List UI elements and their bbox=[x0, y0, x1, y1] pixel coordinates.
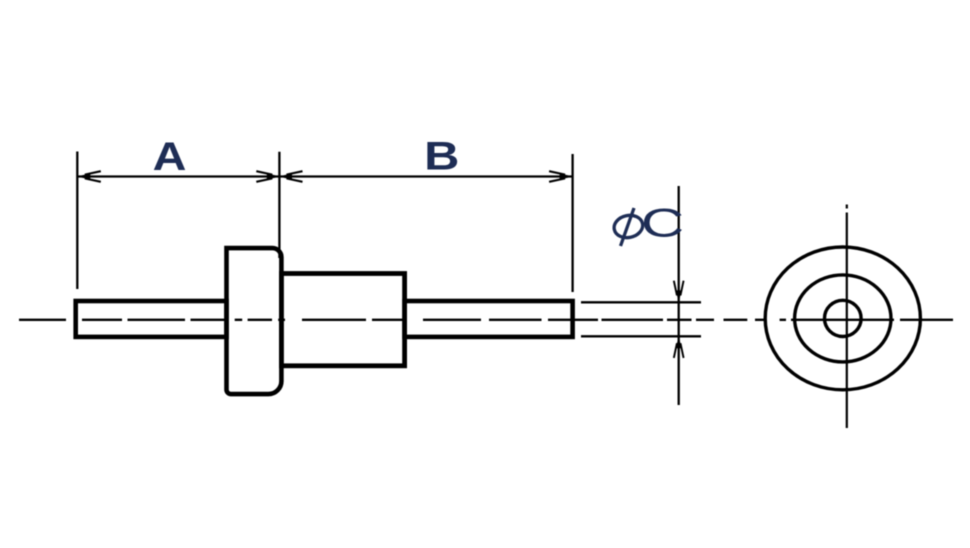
arrow phiC up bbox=[674, 336, 684, 358]
arrow A left bbox=[77, 171, 101, 182]
inner circle (lead, end view) bbox=[825, 300, 862, 336]
svg-text:A: A bbox=[153, 135, 187, 179]
flange bbox=[227, 248, 282, 394]
extension line phiC top bbox=[581, 301, 701, 303]
left lead bbox=[76, 301, 227, 337]
right lead bbox=[405, 301, 573, 337]
body bbox=[281, 274, 404, 366]
label phi bbox=[612, 208, 645, 246]
extension line phiC bottom bbox=[581, 335, 701, 337]
dimension line A bbox=[77, 175, 279, 177]
svg-text:C: C bbox=[641, 200, 684, 245]
arrow phiC down bbox=[674, 281, 684, 303]
centerline vertical dot bbox=[846, 205, 848, 209]
arrow B right bbox=[549, 171, 573, 182]
middle circle (body, end view) bbox=[795, 275, 891, 362]
svg-text:B: B bbox=[424, 135, 459, 179]
extension line right of B bbox=[571, 154, 573, 292]
outer circle (flange, end view) bbox=[765, 247, 920, 390]
dimension line B bbox=[279, 175, 572, 177]
extension line left of A bbox=[76, 152, 78, 290]
dimension line phiC vertical bbox=[678, 186, 680, 405]
centerline vertical axis bbox=[846, 213, 848, 429]
arrow B left bbox=[279, 171, 303, 182]
extension line A/B shared bbox=[278, 152, 280, 258]
arrow A right bbox=[256, 171, 280, 182]
centerline horizontal axis bbox=[19, 319, 953, 321]
